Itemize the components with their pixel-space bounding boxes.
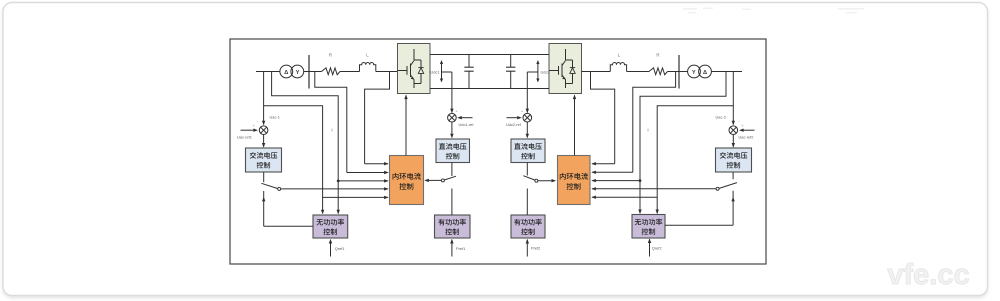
- label R1: [329, 53, 332, 58]
- svg-text:Uac-2: Uac-2: [716, 115, 726, 120]
- transformer T1: [280, 65, 304, 78]
- converter U2: [549, 44, 582, 94]
- wire branch to current ctrl 1: [323, 196, 389, 199]
- label Udc2-ref: [506, 122, 522, 127]
- gate wire U2: [573, 95, 576, 156]
- svg-text:Pref2: Pref2: [531, 246, 540, 251]
- wire AC bus 2c: [668, 71, 743, 73]
- faint artifacts: [683, 8, 864, 14]
- label R2: [656, 53, 659, 58]
- svg-text:Udc2-ref: Udc2-ref: [506, 122, 522, 127]
- wire Q1 feedback: [262, 191, 313, 226]
- wire J1 to current ctrl: [338, 179, 389, 182]
- Pref1 input: [450, 239, 453, 257]
- node bar 2: [678, 55, 680, 89]
- inductor L2: [610, 62, 626, 71]
- svg-text:vfe.cc: vfe.cc: [887, 259, 969, 291]
- Qref1 input: [329, 239, 332, 257]
- wire Uac1 tap: [262, 72, 265, 126]
- block active power ctrl 1: [435, 215, 471, 238]
- svg-text:R: R: [329, 53, 332, 58]
- diagram border: [230, 39, 766, 264]
- arrow into sum S4: [526, 109, 529, 114]
- wire AC bus 1a: [256, 71, 322, 73]
- wire S1 to AC ctrl 1: [262, 135, 265, 148]
- label Uac-2: [716, 115, 726, 120]
- label Pref2: [531, 246, 540, 251]
- switch SW3: [441, 176, 456, 182]
- capacitor C1: [464, 55, 473, 89]
- Pref2 input: [526, 239, 529, 257]
- switch SW4: [523, 176, 538, 183]
- svg-text:Δ: Δ: [703, 70, 707, 76]
- Uac-ref2 arrow: [738, 119, 754, 132]
- wire S4 to DC ctrl 2: [526, 122, 529, 138]
- block AC voltage ctrl 2: [716, 148, 752, 172]
- wire S3 to DC ctrl 1: [450, 122, 453, 138]
- summing junction S4: [523, 113, 532, 122]
- wire v1 feedback: [272, 72, 340, 215]
- svg-text:i: i: [647, 128, 648, 133]
- svg-text:Qref2: Qref2: [652, 246, 662, 251]
- arrow into sum S3: [450, 109, 453, 114]
- svg-text:Uac-1: Uac-1: [270, 115, 280, 120]
- resistor R2: [649, 68, 668, 75]
- wire AC ctrl 2 out: [732, 172, 734, 179]
- summing junction S3: [448, 113, 457, 122]
- wire conv1 feedback: [365, 72, 390, 166]
- wire v2 feedback: [638, 72, 726, 215]
- Udc1 measure arrow: [440, 60, 443, 83]
- switch SW2: [716, 183, 737, 191]
- svg-text:Y: Y: [692, 70, 696, 76]
- svg-text:i: i: [331, 128, 332, 133]
- wire DC ctrl 1 out: [451, 163, 453, 177]
- Udc2-ref arrow: [507, 109, 524, 120]
- svg-text:Δ: Δ: [284, 70, 288, 76]
- label Pref1: [456, 246, 465, 251]
- wire Q2 feedback: [665, 191, 735, 225]
- svg-text:Pref1: Pref1: [456, 246, 465, 251]
- block reactive power ctrl 2: [632, 215, 665, 239]
- label Qref1: [335, 246, 345, 251]
- wire J2 to current ctrl: [591, 179, 640, 182]
- block current ctrl 1: [390, 156, 424, 205]
- inductor L1: [360, 62, 376, 71]
- wire SW3 to current ctrl: [424, 179, 441, 182]
- wire Udc1 tap: [442, 72, 452, 113]
- wire i1 feedback: [315, 72, 389, 175]
- label Uac-1: [270, 115, 280, 120]
- label Uac-ref2: [739, 134, 754, 139]
- wire SW4 to current ctrl: [538, 179, 556, 182]
- block DC voltage ctrl 1: [436, 139, 470, 163]
- wire DC+ rail: [430, 54, 549, 56]
- capacitor C2: [506, 55, 515, 89]
- label Qref2: [652, 246, 662, 251]
- wire SW2 to current ctrl: [591, 187, 716, 190]
- block reactive power ctrl 1: [313, 215, 348, 238]
- Udc1-ref arrow: [455, 109, 472, 120]
- wire Uac2 tap: [732, 72, 735, 126]
- label L1: [366, 53, 369, 58]
- label Uac-ref1: [237, 134, 252, 139]
- wire AC bus 2a: [582, 71, 611, 73]
- wire uac1 branch: [264, 106, 325, 215]
- wire S2 to AC ctrl 2: [732, 135, 735, 148]
- watermark vfe.cc: [887, 259, 969, 291]
- transformer T2: [688, 65, 712, 78]
- wire AC bus 1b: [340, 71, 360, 73]
- svg-text:Udc2: Udc2: [541, 69, 550, 74]
- label Udc1-ref: [459, 122, 475, 127]
- block current ctrl 2: [558, 156, 591, 205]
- wire AC ctrl 1 out: [263, 172, 265, 182]
- svg-text:Udc1: Udc1: [430, 69, 439, 74]
- svg-text:Uac-ref2: Uac-ref2: [739, 134, 754, 139]
- wire P2 to SW4: [526, 189, 528, 216]
- svg-text:R: R: [656, 53, 659, 58]
- junction dot J1: [337, 180, 340, 183]
- label Udc1: [430, 69, 439, 74]
- wire AC bus 1c: [376, 71, 398, 73]
- node bar 1: [308, 55, 310, 89]
- svg-text:Y: Y: [296, 70, 300, 76]
- wire AC bus 2b: [627, 71, 649, 73]
- wire branch to current ctrl 2: [591, 196, 657, 199]
- block AC voltage ctrl 1: [246, 148, 282, 172]
- label L2: [618, 53, 621, 58]
- summing junction S1: [259, 126, 268, 135]
- resistor R1: [322, 68, 341, 75]
- summing junction S2: [729, 126, 738, 135]
- Udc2 measure arrow: [536, 60, 539, 83]
- svg-text:Qref1: Qref1: [335, 246, 345, 251]
- block DC voltage ctrl 2: [511, 139, 545, 163]
- switch SW1: [261, 183, 280, 190]
- junction dot J2: [639, 179, 642, 182]
- wire SW1 to current ctrl: [281, 187, 389, 190]
- gate wire U1: [404, 95, 407, 156]
- wire DC ctrl 2 out: [526, 163, 528, 176]
- block active power ctrl 2: [511, 215, 545, 238]
- label i2: [647, 128, 648, 133]
- label i1: [331, 128, 332, 133]
- svg-text:Uac-ref1: Uac-ref1: [237, 134, 252, 139]
- wire uac2 branch: [656, 106, 734, 214]
- wire P1 to SW3: [451, 189, 453, 216]
- wire i2 feedback: [591, 72, 675, 175]
- converter U1: [398, 44, 431, 94]
- wire DC- rail: [430, 88, 549, 90]
- wire conv2 feedback: [591, 72, 615, 166]
- label Udc2: [541, 69, 550, 74]
- Qref2 input: [648, 238, 651, 256]
- Uac-ref1 arrow: [241, 119, 259, 132]
- wire Udc2 tap: [527, 72, 538, 113]
- svg-text:Udc1-ref: Udc1-ref: [459, 122, 475, 127]
